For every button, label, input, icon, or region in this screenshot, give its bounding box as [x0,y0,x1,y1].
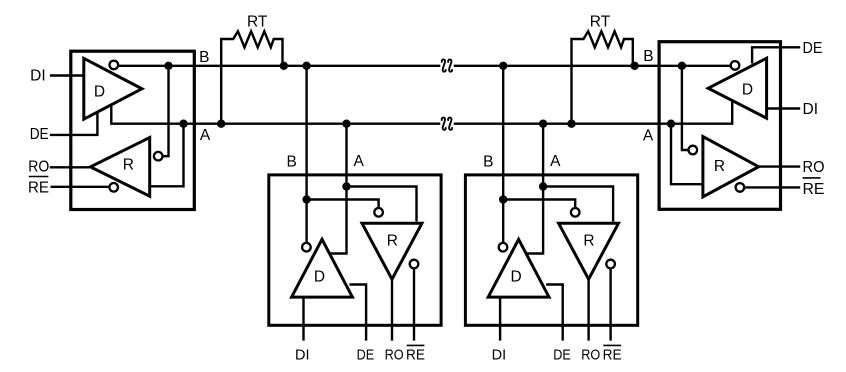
svg-text:RT: RT [247,13,268,30]
bubble driver-out U1 [110,61,119,70]
wire RO stub [391,280,393,341]
svg-text:A: A [200,127,211,144]
wire RO [759,165,800,167]
junction B U1 [164,62,172,70]
driver D (U4) [708,58,766,118]
bubble RE [410,260,419,269]
wire A-tap to receiver [151,124,184,187]
svg-text:DE: DE [357,347,375,363]
wire DI [767,107,800,109]
svg-text:RE: RE [28,179,49,196]
bus line B [114,65,730,67]
break mark B2 [448,59,452,71]
bubble RE U1 [109,183,118,192]
wire DI [50,74,83,76]
box U4 [659,42,780,210]
svg-text:DI: DI [295,347,310,363]
svg-text:RE: RE [406,347,425,363]
break mark B1 [442,59,446,71]
wire B vertical [305,66,307,243]
wire DI stub [302,298,304,341]
wire DE stub [350,285,367,341]
bubble receiver B-in U1 [154,152,163,161]
junction RT2-B [630,62,638,70]
transceiver U3 (middle-right) [465,62,637,364]
driver D (up) [292,239,353,297]
svg-text:DE: DE [803,40,823,57]
bubble receiver B-in [374,208,383,217]
junction RT2-A [567,120,575,128]
receiver R (U1) [90,138,149,197]
wire A vertical to driver [329,124,346,254]
wire DE [752,47,800,63]
svg-text:B: B [287,153,297,170]
svg-text:R: R [714,158,725,175]
svg-text:D: D [94,83,105,100]
receiver R (down) [362,223,422,279]
wire RE [741,186,800,188]
wire RO [50,166,90,168]
break mark A2 [448,118,452,130]
break gap B [440,57,453,74]
transceiver U2 (middle-left) [269,62,441,364]
svg-text:D: D [742,82,753,99]
bubble driver out [302,243,311,252]
bubble driver-out U4 [731,61,740,70]
junction A U4 [667,120,675,128]
break mark A1 [442,118,446,130]
junction B bus [302,62,310,70]
RE overline [407,344,425,346]
bus line A [111,101,732,123]
svg-text:A: A [643,128,654,145]
svg-text:RE: RE [803,181,825,198]
svg-text:RT: RT [590,13,611,30]
wire RE stub [413,266,415,341]
junction RT1-B [280,62,288,70]
svg-text:RO: RO [385,347,404,363]
break gap A [440,115,453,132]
svg-text:RO: RO [803,159,825,176]
wire DE [50,112,98,135]
junction A U1 [179,120,187,128]
RE overline U1 [29,176,49,178]
junction B inner [302,195,310,203]
svg-text:RO: RO [28,159,49,176]
receiver R (U4) [703,137,759,197]
wire B to receiver bubble [307,200,379,208]
junction B U4 [678,62,686,70]
box U2 [269,175,441,325]
svg-text:R: R [123,157,134,174]
svg-text:B: B [199,49,209,66]
junction RT1-A [217,120,225,128]
wire B-tap to receiver [160,66,169,156]
transceiver U4 (right) [659,42,800,210]
resistor RT1 [221,31,282,123]
wire A to receiver [347,187,417,222]
bubble receiver B-in U4 [689,146,698,155]
junction A inner [342,182,350,190]
svg-text:DE: DE [30,126,49,143]
transceiver U1 (left) [50,51,195,209]
svg-text:DI: DI [803,101,819,118]
junction A bus [342,120,350,128]
RE overline U4 [803,177,821,179]
bubble RE U4 [736,183,745,192]
wire B-tap to receiver [682,66,688,150]
svg-text:D: D [314,269,325,286]
svg-text:R: R [387,233,398,250]
svg-text:B: B [643,48,653,65]
svg-text:A: A [354,153,365,170]
wire A-tap to receiver [671,124,703,185]
driver D (U1) [84,58,142,119]
resistor RT2 [572,31,633,123]
box U1 [71,51,195,209]
wire RE [51,186,111,188]
svg-text:DI: DI [30,68,46,85]
